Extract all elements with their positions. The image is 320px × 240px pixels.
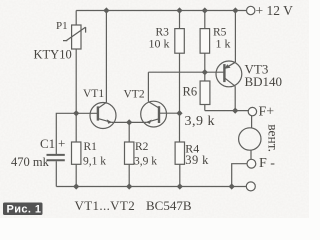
svg-text:+ 12 V: + 12 V [256,3,294,18]
svg-text:KTY10: KTY10 [34,48,72,62]
svg-text:VT1: VT1 [83,88,104,100]
svg-text:10 k: 10 k [149,37,170,51]
svg-text:9,1 k: 9,1 k [83,155,106,167]
svg-text:470 mk: 470 mk [11,155,50,169]
svg-text:VT2: VT2 [124,89,145,101]
svg-text:P1: P1 [56,20,68,32]
svg-text:1 k: 1 k [216,37,231,51]
svg-text:+: + [58,136,65,151]
svg-text:R2: R2 [135,141,149,153]
svg-text:R6: R6 [183,84,198,98]
svg-text:R1: R1 [84,141,98,153]
svg-text:вент.: вент. [265,124,280,152]
svg-text:F+: F+ [259,105,275,120]
svg-text:Рис. 1: Рис. 1 [7,203,42,215]
svg-text:39 k: 39 k [185,153,209,167]
svg-text:3,9 k: 3,9 k [185,114,216,129]
svg-text:BC547B: BC547B [146,198,192,213]
svg-text:BD140: BD140 [245,74,283,89]
svg-text:F -: F - [259,156,275,171]
svg-text:VT1...VT2: VT1...VT2 [75,198,136,213]
svg-text:C1: C1 [40,136,55,151]
svg-text:3,9 k: 3,9 k [134,155,157,167]
